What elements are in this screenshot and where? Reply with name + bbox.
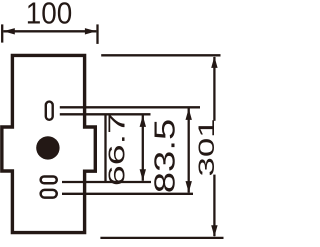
dim 301: bottom arrowhead	[211, 225, 217, 237]
dim 100: left extension tick	[1, 24, 3, 42]
dim 83.5: bottom arrowhead	[186, 181, 192, 193]
dim 301: dimension line lower segment	[213, 175, 215, 237]
leader line L1 (top oval upper)	[60, 106, 200, 108]
dim 100: left arrowhead	[3, 28, 15, 34]
dim 83.5: top arrowhead	[186, 108, 192, 120]
dim 301: dimension line upper segment	[213, 57, 215, 121]
dim 100: dimension line	[3, 30, 96, 32]
dim 301: bottom extension line	[100, 237, 223, 239]
bottom knockout oval 2	[41, 190, 57, 198]
dim 301: top arrowhead	[211, 56, 217, 68]
dim 66.7: dimension line	[142, 115, 144, 180]
dim 100: right extension tick	[96, 24, 98, 44]
leader line L3 (bottom ovals upper)	[62, 181, 151, 183]
svg-text:66.7: 66.7	[103, 113, 129, 186]
svg-text:100: 100	[26, 0, 73, 30]
dim 83.5: dimension line	[188, 108, 190, 192]
dim 100: right arrowhead	[85, 28, 97, 34]
dim 301: top extension line	[101, 54, 220, 56]
dim 66.7: left bracket line	[104, 114, 106, 181]
dim 66.7: bottom arrowhead	[140, 169, 146, 181]
fixture body outline	[2, 55, 95, 232]
dim 66.7: top arrowhead	[140, 115, 146, 127]
svg-text:83.5: 83.5	[149, 119, 181, 193]
leader line L4 (bottom ovals lower)	[62, 193, 193, 195]
leader line L2 (top oval lower)	[60, 113, 151, 115]
top knockout oval	[46, 102, 53, 120]
bottom knockout oval 1	[41, 176, 57, 183]
svg-text:301: 301	[195, 119, 219, 177]
filled mounting circle	[36, 136, 59, 159]
